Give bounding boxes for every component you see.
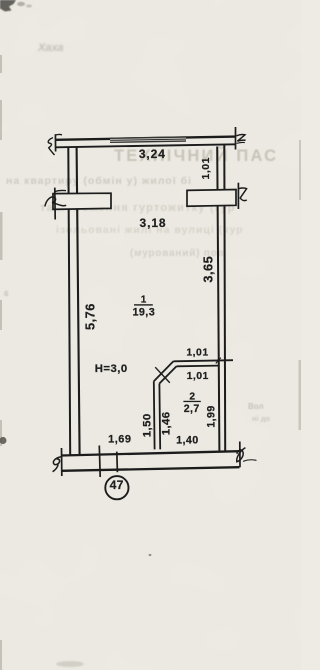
bottom wall tick 2 [116,452,119,473]
svg-text:б: б [4,290,9,298]
right wall stub (section of neighbouring wall) [187,183,247,209]
left wall outer line [68,148,70,456]
room 2 chamfer outer [154,361,174,381]
right wall outer line [223,145,226,451]
left edge dark dot [0,437,7,444]
room 2 left wall inner [158,384,161,450]
svg-text:на квартиру (обмін у) жилої бі: на квартиру (обмін у) жилої бі [6,175,192,187]
left edge streaks [0,55,3,670]
exterior wall top, inner line [56,144,236,147]
room 2 top wall lower line [177,365,219,368]
exterior wall top, outer line [56,137,236,140]
unit number circle [105,476,128,499]
room 1 fraction line [134,304,153,305]
bottom-left smudge [56,661,84,667]
left wall inner line [77,148,80,456]
svg-text:3,65: 3,65 [200,256,215,283]
break squiggle right stub [237,183,239,209]
break squiggle left stub [54,188,56,220]
door D1 tick [155,367,170,383]
stray speck [149,554,152,556]
svg-text:1: 1 [141,295,147,306]
bottom wall right cap [239,442,241,468]
svg-text:1,40: 1,40 [176,434,199,446]
room 2 fraction line [183,401,200,402]
bottom wall bottom line [62,467,240,471]
svg-text:2,7: 2,7 [184,403,200,415]
svg-text:47: 47 [110,478,124,492]
svg-text:1,01: 1,01 [200,157,212,179]
svg-text:ні до: ні до [252,414,270,423]
break mark top-right [236,135,245,144]
svg-text:1,69: 1,69 [108,434,131,446]
svg-text:1,46: 1,46 [160,412,172,436]
top wall right end cap [235,127,237,150]
bottom wall tick 1 [98,446,101,478]
svg-text:Хаха: Хаха [37,42,64,54]
svg-text:5,76: 5,76 [83,303,98,330]
break mark top-left [48,134,62,155]
bottom wall top line [62,451,240,455]
ghost bleed-through text [4,42,278,423]
svg-text:19,3: 19,3 [132,306,155,318]
top wall left end cap [54,134,56,151]
svg-text:3,24: 3,24 [139,147,166,161]
svg-text:1,99: 1,99 [206,405,218,427]
dim tick room2 right [216,358,221,364]
break squiggle bottom-right [237,448,257,462]
svg-text:Н=3,0: Н=3,0 [95,363,128,375]
room 2 left wall outer [153,381,156,449]
right edge streaks [299,140,302,430]
svg-text:1,50: 1,50 [142,413,154,437]
break squiggle bottom-left [53,457,61,472]
left wall stub (section of neighbouring wall) [45,188,111,220]
corner scan blob [0,0,16,12]
room 2 top wall upper line / dimension line [173,360,233,361]
window W1 in top wall [110,136,186,143]
svg-text:3,18: 3,18 [140,216,167,230]
bottom wall left cap [61,448,63,476]
svg-text:Вол: Вол [248,402,264,411]
right wall inner line [217,147,219,452]
room 2 chamfer inner [159,366,176,383]
svg-text:1,01: 1,01 [187,370,209,382]
svg-text:1,01: 1,01 [186,346,208,358]
